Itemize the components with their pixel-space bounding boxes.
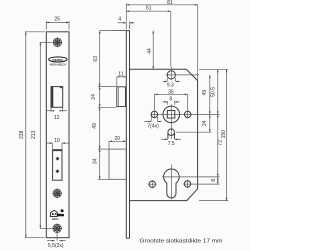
dimension 51 backset xyxy=(126,6,171,67)
svg-text:9.3: 9.3 xyxy=(167,83,174,89)
dimension 7(4x) xyxy=(144,117,161,130)
svg-text:150: 150 xyxy=(221,130,227,139)
dimension 81 case depth xyxy=(126,0,197,81)
svg-text:12: 12 xyxy=(54,115,60,121)
svg-text:50.5: 50.5 xyxy=(210,87,216,97)
screw hole top xyxy=(53,38,63,48)
hole 9.3 top xyxy=(166,67,199,81)
dimension 20 deadbolt protrusion xyxy=(109,136,126,149)
deadbolt fixing dot 1 xyxy=(56,157,60,161)
svg-text:4: 4 xyxy=(118,17,121,23)
right dim extension bottom xyxy=(199,200,228,202)
svg-text:63: 63 xyxy=(93,56,99,62)
svg-text:213: 213 xyxy=(31,130,37,139)
side view faceplate strip xyxy=(112,31,130,239)
dimension 5,5(2x) xyxy=(47,233,66,249)
deadbolt side view xyxy=(109,149,126,179)
dimension 150 line C xyxy=(221,69,228,200)
deadbolt opening front xyxy=(53,149,62,180)
dimension 9.3 xyxy=(163,78,180,89)
dimension 7.5 slot xyxy=(161,139,181,148)
right dim extension top xyxy=(199,68,228,70)
svg-text:8: 8 xyxy=(211,179,217,182)
euro cylinder profile xyxy=(162,165,220,200)
faceplate front view outline xyxy=(46,32,69,238)
fixing hole left of follower xyxy=(151,94,157,118)
dimension 12 latch width xyxy=(47,107,67,121)
svg-text:SKG: SKG xyxy=(52,217,59,221)
svg-text:35: 35 xyxy=(168,89,174,95)
dimension 45 line A xyxy=(202,75,211,132)
lock case outline side view xyxy=(130,69,198,200)
svg-text:24: 24 xyxy=(91,94,97,100)
svg-text:7(4x): 7(4x) xyxy=(147,123,159,129)
fixing hole right of follower xyxy=(185,94,191,118)
dimension 238 plate height xyxy=(19,32,45,238)
chain dimension line left of case xyxy=(98,31,116,180)
svg-text:51: 51 xyxy=(146,6,152,12)
dimension 10 deadbolt width xyxy=(46,138,69,150)
dimension 44 top to case xyxy=(100,31,154,70)
svg-text:81: 81 xyxy=(167,0,173,6)
dimension 35 xyxy=(154,89,187,95)
fixing hole below follower with slot xyxy=(168,129,212,139)
svg-text:20: 20 xyxy=(115,136,121,142)
dimension 11 latch protrusion xyxy=(117,72,126,87)
svg-text:NEMEF: NEMEF xyxy=(52,58,63,62)
latch opening front xyxy=(51,86,63,107)
svg-text:7.5: 7.5 xyxy=(168,141,175,147)
dimension 50.5 72 8 line B xyxy=(210,69,223,184)
SKG keurmerk logo xyxy=(50,209,64,221)
dimension 4 faceplate thickness xyxy=(118,17,135,29)
svg-text:Grootste slotkastdikte 17 mm: Grootste slotkastdikte 17 mm xyxy=(140,238,223,244)
svg-text:24: 24 xyxy=(202,120,208,126)
cylinder side hole right xyxy=(183,180,219,189)
svg-text:10: 10 xyxy=(54,138,60,144)
spindle follower circle xyxy=(151,104,220,139)
svg-text:238: 238 xyxy=(19,130,25,139)
latch bolt side view xyxy=(117,87,126,107)
svg-text:25: 25 xyxy=(54,17,60,23)
svg-text:5,5(2x): 5,5(2x) xyxy=(48,243,64,249)
svg-text:34: 34 xyxy=(92,158,98,164)
screw hole middle xyxy=(53,189,62,198)
svg-text:72: 72 xyxy=(217,140,223,146)
svg-text:11: 11 xyxy=(118,72,123,78)
svg-text:ASSA ABLOY: ASSA ABLOY xyxy=(49,62,66,66)
deadbolt fixing dot 2 xyxy=(55,169,59,173)
svg-text:49: 49 xyxy=(92,123,98,129)
svg-text:44: 44 xyxy=(147,48,153,54)
dimension 213 screw distance xyxy=(31,42,52,228)
dimension 8 square xyxy=(163,96,180,105)
dimension 25 plate width xyxy=(46,17,69,30)
svg-text:45: 45 xyxy=(202,90,208,96)
cylinder side hole left xyxy=(148,180,157,189)
svg-text:8: 8 xyxy=(169,96,172,102)
NEMEF logo xyxy=(49,57,67,66)
screw hole bottom xyxy=(52,224,62,234)
